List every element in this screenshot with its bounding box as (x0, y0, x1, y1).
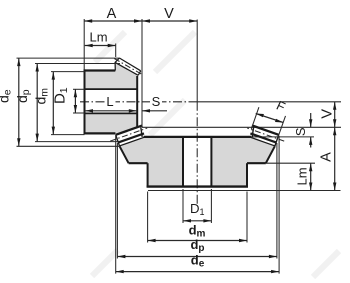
dim F ext line 1 (251, 107, 259, 129)
gear axis centerline (196, 102, 198, 204)
gear right step (247, 162, 266, 164)
dim D1 bottom ext left (182, 189, 184, 223)
watermark streaks (92, 32, 339, 277)
pinion top tooth root line (115, 62, 138, 75)
gear left chamfer (120, 146, 129, 163)
pinion bore top (85, 88, 138, 90)
dim F ext line 2 (278, 116, 286, 139)
gear right tooth line4 (248, 136, 275, 145)
gear body right grey (211, 137, 274, 187)
right dim V line (334, 102, 336, 128)
dim dp bottom ext right (276, 143, 278, 259)
dim dm bottom ext right (246, 192, 248, 243)
pinion bore bottom (85, 112, 138, 114)
ext de bottom (17, 145, 120, 147)
dim S leader arrow (142, 110, 167, 112)
svg-text:S: S (293, 127, 308, 136)
ext line front face (83, 19, 85, 70)
gear bottom extension line (148, 190, 341, 192)
gear step Lm extension (266, 162, 315, 164)
dim de bottom line (116, 271, 279, 273)
mesh band line1 (116, 125, 143, 134)
pinion front face (84, 69, 86, 134)
pinion body upper grey (85, 62, 139, 89)
dim S label (150, 95, 162, 107)
gear right tooth line1 (252, 125, 279, 134)
mesh band left cap (116, 135, 120, 147)
gear hub left side (147, 163, 149, 187)
dim dm line (52, 72, 54, 135)
ext D1 top (73, 88, 85, 90)
dim D1 bottom ext right (210, 189, 212, 223)
pinion body lower grey (85, 113, 138, 135)
dim dp line (36, 64, 38, 142)
gear right tooth right cap (275, 135, 279, 147)
ext line Lm right (115, 44, 117, 58)
ext line mounting plane vertical (141, 19, 143, 127)
dim dp bottom ext left (116, 143, 118, 259)
mesh band line4 (120, 136, 147, 145)
pinion axis extension right (197, 101, 341, 103)
pinion top tooth tip line (119, 58, 140, 71)
mesh band line3 (118, 133, 144, 142)
mesh band right cap (141, 127, 142, 137)
dim D1 bottom line (183, 220, 211, 222)
gear bottom face (147, 185, 248, 187)
svg-text:de: de (0, 89, 14, 103)
svg-text:Lm: Lm (294, 167, 309, 185)
gear left step (129, 162, 148, 164)
pinion top tooth left cap (115, 58, 119, 71)
svg-text:V: V (164, 6, 174, 22)
pinion back face (136, 76, 138, 127)
right dim A line (334, 127, 336, 190)
dim D1 line (74, 89, 76, 113)
gear right tooth left cap (252, 127, 253, 137)
svg-text:L: L (106, 94, 113, 109)
gear right chamfer (266, 146, 275, 163)
dim de bottom ext right (278, 136, 280, 274)
gear right tooth pitch dashdot (247, 128, 284, 141)
svg-text:A: A (107, 6, 117, 22)
gear body left grey (120, 137, 183, 187)
gear top face (144, 136, 252, 138)
dim dm bottom ext left (147, 192, 149, 243)
dim L label (105, 97, 116, 108)
right dim Lm line (310, 163, 312, 190)
right dim S arrows (310, 113, 312, 127)
gear axis extension upper (196, 20, 198, 102)
ext dm top (51, 71, 85, 73)
pinion top tooth pitch dashdot (114, 59, 142, 75)
dim de bottom ext left (115, 136, 117, 274)
gear hub right side (246, 163, 248, 187)
svg-text:A: A (319, 152, 335, 162)
svg-text:S: S (152, 94, 161, 109)
gear bore right (210, 137, 212, 187)
gear bore left (182, 137, 184, 187)
pinion hub bottom edge (84, 132, 116, 134)
ext D1 bottom (73, 112, 85, 114)
svg-text:Lm: Lm (89, 30, 107, 45)
dim V line (142, 20, 197, 22)
mesh band pitch dashdot (110, 128, 147, 141)
dim L line (85, 110, 137, 112)
ext dp bottom (35, 141, 118, 143)
ext dp top (35, 63, 120, 65)
gear right tooth line3 (250, 133, 276, 142)
pinion top tooth right cap (138, 71, 141, 76)
dim dm bottom line (148, 240, 247, 242)
dim Lm line (85, 45, 116, 47)
dim de line (18, 58, 20, 146)
svg-text:V: V (320, 109, 336, 119)
pinion hub top edge (84, 69, 116, 71)
dim dp bottom line (117, 256, 277, 258)
ext de top (17, 57, 120, 59)
dim F line (256, 114, 284, 123)
pinion axis centerline (80, 101, 197, 103)
dim A line (84, 20, 142, 22)
gear mounting plane line (142, 126, 341, 128)
ext dm bottom (51, 134, 85, 136)
gear top face S extension (251, 136, 314, 138)
